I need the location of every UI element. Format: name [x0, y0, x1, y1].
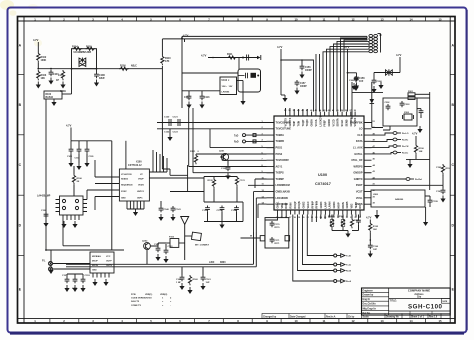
ground mic rail — [48, 267, 53, 274]
capacitor C163 — [163, 246, 173, 263]
svg-text:C120: C120 — [164, 117, 170, 119]
resistor C131 — [235, 176, 245, 186]
ground R190 — [407, 159, 412, 168]
shield module rounded box — [238, 69, 261, 92]
node 4.7V mid — [181, 34, 189, 39]
wires X100 left pins — [95, 160, 119, 210]
svg-text:13: 13 — [380, 17, 384, 21]
capacitor C153 — [80, 275, 90, 292]
svg-text:Q101: Q101 — [219, 151, 225, 153]
svg-text:C134: C134 — [231, 209, 237, 212]
svg-text:SDATA: SDATA — [121, 178, 128, 181]
svg-text:C121: C121 — [173, 117, 179, 119]
resistor R102 — [37, 52, 47, 62]
svg-text:SCLK: SCLK — [341, 120, 344, 127]
svg-text:COMPANY NAME: COMPANY NAME — [408, 288, 430, 292]
wire vertical V2 — [181, 36, 183, 108]
resistor R100 series in rail — [119, 65, 137, 71]
U100 bottom pin labels — [277, 201, 363, 209]
inductor L303 small box right — [285, 236, 290, 241]
svg-text:POS1: POS1 — [276, 147, 283, 150]
node 4.7V supply top-left — [33, 38, 39, 52]
U100 left pin numbers — [262, 121, 265, 205]
capacitor C105 — [84, 147, 94, 167]
svg-text:C300: C300 — [377, 81, 383, 83]
svg-text:Engineer: Engineer — [363, 289, 373, 292]
svg-text:LP2985: LP2985 — [222, 92, 230, 94]
svg-text:RFINP: RFINP — [311, 201, 314, 209]
capacitor C161 below bus — [200, 267, 211, 290]
svg-text:VCCD: VCCD — [332, 119, 335, 126]
node 4.7V right — [412, 132, 418, 145]
U100 left pin labels — [276, 121, 292, 206]
svg-text:10: 10 — [294, 17, 298, 21]
svg-text:LA4425AMP: LA4425AMP — [37, 195, 51, 198]
wire amp to mic bus — [46, 99, 124, 267]
resistor R181 below chip — [339, 215, 345, 229]
ground U100 bottom-right — [374, 210, 379, 219]
wire fan to chip top — [323, 36, 369, 111]
grounds top-right area — [351, 82, 383, 90]
wire top-right feed — [352, 82, 383, 119]
U106 bottom pins — [93, 273, 109, 278]
svg-text:C170: C170 — [275, 224, 281, 226]
battery connector J100 — [369, 34, 381, 53]
svg-text:4.7V: 4.7V — [201, 54, 207, 58]
svg-text:1000P: 1000P — [300, 86, 307, 88]
svg-text:C157: C157 — [300, 83, 306, 85]
svg-text:Eng ltr: Eng ltr — [363, 298, 371, 301]
svg-text:MMBZ.2KB: MMBZ.2KB — [79, 52, 91, 54]
svg-text:TXVCOTUNE: TXVCOTUNE — [276, 128, 292, 131]
svg-text:GND: GND — [92, 270, 97, 272]
svg-text:CLK: CLK — [357, 134, 362, 137]
capacitor C158 — [348, 73, 366, 90]
svg-text:R160: R160 — [193, 279, 199, 281]
svg-text:4.7V: 4.7V — [183, 34, 189, 38]
capacitor C156 — [299, 59, 312, 78]
capacitor C108 to ground — [94, 69, 105, 87]
svg-text:1P: 1P — [56, 79, 59, 82]
border zone ticks top — [50, 17, 426, 22]
crystal module box U301 — [383, 98, 417, 126]
capacitor C121 series — [164, 119, 180, 134]
svg-text:VER(2): VER(2) — [160, 294, 167, 296]
svg-text:X100: X100 — [136, 161, 142, 164]
svg-text:AGY1: AGY1 — [276, 165, 283, 168]
mic connector P100 — [42, 261, 90, 272]
svg-text:11: 11 — [323, 17, 326, 21]
capacitor C300 — [371, 73, 382, 94]
wires below-chip drops to arrows — [265, 215, 334, 282]
svg-text:XTAL_OF: XTAL_OF — [351, 159, 363, 162]
capacitor C120 series — [164, 117, 179, 127]
wire main rail left — [38, 62, 162, 68]
svg-text:GND2: GND2 — [303, 201, 306, 209]
svg-text:14: 14 — [409, 319, 413, 323]
svg-text:R190: R190 — [419, 148, 425, 150]
U100 right pin stubs — [364, 123, 372, 205]
svg-text:C303: C303 — [405, 104, 411, 106]
capacitor C134 — [231, 206, 239, 222]
svg-text:RFINN: RFINN — [316, 201, 319, 209]
svg-text:Rx.B: Rx.B — [346, 271, 351, 273]
border zone ticks bottom — [50, 319, 426, 323]
svg-text:RXQP: RXQP — [294, 201, 297, 208]
resistor R105 on box top — [86, 46, 96, 51]
capacitor C141 — [170, 206, 181, 221]
ground X100 — [133, 209, 138, 216]
wires into U100 left top pins — [157, 123, 267, 129]
capacitor C152 — [72, 277, 78, 292]
svg-text:LNAN: LNAN — [329, 201, 332, 208]
svg-text:LRX1800B: LRX1800B — [276, 197, 289, 200]
svg-text:C131: C131 — [240, 180, 246, 182]
U100 bottom pin numbers — [276, 216, 362, 219]
svg-text:X300: X300 — [404, 112, 410, 114]
svg-text:R300: R300 — [220, 262, 226, 264]
svg-text:TXVCOPWR: TXVCOPWR — [276, 121, 291, 124]
svg-text:R180: R180 — [328, 216, 334, 218]
U105 bottom pins — [63, 215, 79, 220]
svg-text:DATA: DATA — [356, 140, 363, 143]
svg-text:C163: C163 — [168, 246, 174, 248]
svg-text:Ck by: Ck by — [348, 316, 355, 318]
svg-text:C104: C104 — [75, 157, 81, 160]
svg-text:4.7V: 4.7V — [366, 216, 372, 220]
border zone numbers — [34, 17, 442, 323]
svg-text:10: 10 — [294, 319, 298, 323]
below-chip coupling box L301 — [265, 218, 289, 248]
svg-text:C302: C302 — [385, 102, 391, 104]
svg-text:SENB: SENB — [345, 119, 348, 126]
svg-text:C156: C156 — [305, 67, 311, 69]
svg-text:10K: 10K — [41, 77, 46, 80]
svg-text:R171: R171 — [275, 243, 281, 245]
resistor R110 on V1 — [161, 55, 171, 65]
wire right riser — [429, 92, 431, 125]
svg-text:15: 15 — [438, 319, 442, 323]
svg-text:MICIP: MICIP — [92, 261, 98, 263]
svg-text:Scale:: Scale: — [363, 316, 370, 318]
connector arrow audio 1 — [334, 254, 351, 258]
wire long vertical V3 — [111, 141, 113, 250]
svg-text:FREF: FREF — [324, 120, 327, 127]
capacitor C196 — [368, 232, 379, 257]
svg-text:4.7V: 4.7V — [277, 45, 283, 49]
svg-text:1000P: 1000P — [305, 70, 312, 72]
svg-text:33UF: 33UF — [99, 77, 105, 80]
svg-text:GNDTX: GNDTX — [354, 178, 363, 181]
svg-text:TXQN: TXQN — [306, 119, 309, 126]
wire R190 to bus — [406, 154, 430, 190]
capacitor C140 — [158, 201, 169, 221]
svg-text:SDATA: SDATA — [337, 118, 340, 126]
U100 left pin stubs — [267, 123, 275, 205]
svg-text:1UF: 1UF — [359, 81, 364, 83]
svg-text:D100: D100 — [46, 94, 52, 96]
svg-text:100K: 100K — [41, 59, 47, 62]
resistor R130 — [208, 178, 216, 188]
svg-text:14: 14 — [409, 17, 413, 21]
svg-text:C105: C105 — [89, 156, 95, 158]
diode D300 vertical — [370, 82, 375, 128]
wire X100 feed — [162, 165, 204, 192]
resistor R195 — [369, 222, 379, 232]
svg-text:R191: R191 — [446, 168, 452, 170]
wire cap gnd stub — [169, 129, 171, 134]
capacitor C150 — [41, 210, 49, 227]
capacitor C195 at box right — [425, 196, 439, 204]
grounds U105 — [61, 221, 77, 228]
resistor R191 right edge — [436, 164, 452, 176]
svg-text:VER(1): VER(1) — [145, 294, 152, 296]
svg-text:C160: C160 — [176, 279, 182, 281]
svg-text:12: 12 — [351, 17, 355, 21]
svg-text:PCB: PCB — [131, 294, 136, 296]
connector arrow Rx_CK — [393, 145, 409, 149]
resistor R111 — [227, 53, 237, 59]
connector arrow Rx_Rx — [393, 138, 409, 142]
svg-text:TITLE:: TITLE: — [390, 299, 398, 302]
U100 bottom pin stubs — [278, 210, 361, 215]
connector arrow Rx_Dx — [393, 151, 409, 155]
capacitor C180 below chip — [352, 215, 361, 231]
capacitor C104 — [75, 147, 82, 170]
svg-text:TXIP: TXIP — [293, 121, 296, 127]
junction dot connector — [380, 34, 382, 36]
svg-text:4.7V: 4.7V — [396, 53, 402, 57]
svg-text:4.7V: 4.7V — [412, 132, 418, 136]
antenna ANT100 — [181, 217, 189, 261]
connector TxD — [234, 134, 267, 138]
ground box right — [423, 219, 428, 226]
capacitor C162 — [154, 244, 161, 261]
svg-text:GNDRFBK: GNDRFBK — [350, 121, 363, 124]
resistor R121 — [190, 151, 200, 164]
svg-text:C122: C122 — [164, 132, 170, 134]
svg-text:R100: R100 — [120, 65, 126, 68]
resistor R107 third branch — [58, 70, 66, 89]
wire X100 top feed — [125, 141, 127, 169]
svg-text:LO: LO — [359, 128, 363, 131]
capacitor C133 — [217, 206, 225, 222]
svg-text:Doc.Ctrl.No: Doc.Ctrl.No — [363, 303, 377, 306]
grounds U106 — [92, 279, 108, 286]
connector arrow audio 4 — [334, 279, 352, 283]
svg-text:CMDLNAXB: CMDLNAXB — [276, 190, 290, 193]
resistor R160 below bus — [187, 275, 198, 294]
title block outline — [362, 288, 451, 315]
transistor Q101 — [219, 151, 229, 161]
node 4.7V below box — [366, 216, 372, 223]
ground U301 — [417, 126, 422, 133]
ground RF net — [219, 222, 224, 229]
wire long vertical V1 — [161, 39, 163, 169]
svg-text:TXERA: TXERA — [276, 134, 285, 137]
revision strip texts — [263, 315, 438, 318]
shield box RF bottom-right — [371, 190, 425, 207]
svg-text:U100: U100 — [318, 173, 327, 177]
wires U100 right pins to Rx arrows — [372, 133, 394, 154]
capacitor C304 — [417, 109, 423, 118]
svg-text:L1_AUX: L1_AUX — [353, 147, 363, 150]
svg-text:GND3: GND3 — [320, 201, 323, 209]
svg-text:C141: C141 — [176, 208, 182, 211]
svg-text:Rx.Dx: Rx.Dx — [402, 153, 409, 155]
svg-text:Rx.LO: Rx.LO — [402, 133, 409, 135]
node 4.7V D300 — [396, 53, 402, 73]
U100 extra top stubs — [286, 108, 308, 112]
U100 top pin numbers — [284, 109, 357, 112]
svg-text:R111: R111 — [227, 53, 233, 56]
svg-text:Tx.B: Tx.B — [346, 256, 351, 258]
label X100 — [128, 161, 142, 168]
svg-text:1UF: 1UF — [373, 249, 378, 251]
resistor R104 on box top — [72, 46, 82, 51]
svg-text:Mfg Engr ltr: Mfg Engr ltr — [363, 308, 376, 311]
svg-text:SGH TX: SGH TX — [131, 301, 140, 303]
svg-text:12V+: 12V+ — [222, 86, 228, 88]
svg-text:Drawing No: Drawing No — [386, 316, 399, 318]
svg-text:C191: C191 — [436, 191, 442, 193]
svg-text:2K: 2K — [77, 181, 80, 183]
svg-text:U102: U102 — [222, 80, 228, 82]
svg-text:13: 13 — [380, 319, 384, 323]
svg-text:VAPC2: VAPC2 — [137, 190, 145, 193]
svg-text:C301: C301 — [349, 80, 355, 82]
svg-text:TXEPS: TXEPS — [276, 172, 285, 175]
svg-text:10K: 10K — [373, 229, 377, 231]
svg-text:GNDS: GNDS — [355, 203, 363, 206]
svg-text:WFDPS: WFDPS — [353, 165, 362, 168]
ground below left-top — [281, 95, 288, 102]
svg-text:VDDO: VDDO — [138, 185, 144, 187]
svg-text:SGH-C100: SGH-C100 — [408, 304, 443, 311]
svg-text:C161: C161 — [206, 279, 212, 281]
svg-text:C190: C190 — [436, 167, 442, 169]
svg-text:GNDD: GNDD — [328, 119, 331, 127]
svg-text:TxD: TxD — [234, 135, 239, 137]
diode D301 bowtie — [374, 69, 400, 75]
revision strip — [262, 314, 450, 319]
svg-text:CODE VERSION NO: CODE VERSION NO — [131, 298, 152, 300]
svg-text:RxD: RxD — [234, 142, 239, 144]
capacitor C130 — [221, 161, 231, 180]
svg-text:GNDA: GNDA — [311, 119, 314, 127]
svg-text:C112: C112 — [184, 97, 190, 99]
svg-text:TXVCOBFF: TXVCOBFF — [276, 159, 290, 162]
svg-text:12: 12 — [351, 319, 355, 323]
svg-text:VAGC: VAGC — [307, 201, 310, 208]
capacitor C113 — [199, 91, 210, 109]
svg-text:CX74017: CX74017 — [315, 182, 331, 186]
svg-text:C103: C103 — [67, 156, 73, 158]
svg-text:LRX8MKCM: LRX8MKCM — [276, 184, 290, 187]
svg-text:SIZE: SIZE — [442, 301, 447, 303]
resistor R106 — [72, 166, 82, 196]
resistor R190 — [414, 144, 424, 154]
svg-text:EXTAL: EXTAL — [354, 153, 362, 156]
svg-text:C195: C195 — [433, 201, 439, 203]
regulator U102 — [220, 77, 237, 95]
capacitor C101 to ground — [48, 70, 59, 85]
node 4.7V chip right-top — [344, 45, 350, 112]
svg-text:OUTP: OUTP — [106, 261, 112, 263]
wire mic caps — [67, 274, 83, 277]
svg-text:VB2: VB2 — [350, 203, 353, 208]
connector arrow Rx_LO — [393, 132, 409, 136]
svg-text:R106: R106 — [77, 178, 83, 180]
svg-text:GNDOP: GNDOP — [353, 172, 363, 175]
svg-text:MIXP: MIXP — [337, 202, 340, 208]
svg-text:L300: L300 — [209, 262, 215, 264]
svg-text:11: 11 — [323, 319, 326, 323]
svg-text:4.7V: 4.7V — [344, 45, 350, 49]
svg-text:VCCA: VCCA — [315, 119, 318, 126]
switch INT box — [185, 232, 210, 246]
border zone letters — [19, 44, 455, 292]
wire drop to detector — [62, 69, 72, 94]
svg-text:R301: R301 — [408, 91, 414, 93]
svg-text:1 NF: 1 NF — [176, 282, 181, 284]
capacitor C301 — [349, 76, 359, 91]
wires regulator pins — [182, 58, 243, 99]
node 4.7V cap bank — [66, 124, 72, 141]
resistor box R301 — [408, 91, 430, 96]
capacitor C114 series — [242, 55, 249, 61]
svg-text:MIXN: MIXN — [342, 202, 345, 208]
capacitor C112 — [184, 91, 192, 109]
svg-text:C123: C123 — [173, 132, 179, 134]
svg-text:COME TX: COME TX — [131, 305, 142, 307]
svg-text:BAS16: BAS16 — [46, 96, 54, 99]
connector RxD — [234, 140, 267, 144]
ground left pair — [167, 134, 172, 141]
svg-text:15: 15 — [438, 17, 442, 21]
audio amp U105 box — [56, 196, 88, 215]
svg-text:VCST: VCST — [356, 190, 363, 193]
svg-text:VCSL: VCSL — [356, 197, 363, 200]
wire RF rails — [204, 177, 243, 222]
wire riser right join — [429, 125, 431, 159]
filter F100 — [164, 237, 185, 248]
U100 right pin labels — [350, 121, 363, 206]
capacitor C157 — [294, 80, 307, 95]
svg-text:Rx.Ref: Rx.Ref — [415, 179, 422, 181]
svg-text:C153: C153 — [85, 275, 91, 277]
svg-text:TXERB: TXERB — [276, 140, 285, 143]
svg-text:4.7V: 4.7V — [66, 124, 72, 128]
transistor Q102 — [142, 241, 150, 265]
svg-text:VAPC: VAPC — [137, 197, 143, 200]
U100 top pin labels — [285, 116, 358, 127]
svg-text:Drawn by: Drawn by — [363, 294, 374, 297]
svg-text:FSOT: FSOT — [356, 184, 363, 187]
capacitor C191 right edge — [436, 185, 446, 202]
svg-text:Tx.A: Tx.A — [346, 264, 351, 267]
wire right long — [372, 176, 444, 185]
resistor box R302 — [408, 97, 430, 100]
svg-text:LOCKDT: LOCKDT — [319, 116, 322, 127]
junction dots rail — [37, 68, 97, 70]
border zone ticks left and right — [18, 74, 456, 255]
svg-text:12V: 12V — [229, 86, 233, 88]
svg-text:R107: R107 — [58, 75, 64, 77]
wires into U100 left mid pins — [189, 108, 267, 232]
svg-text:TXQP: TXQP — [302, 119, 305, 126]
wire Q102 row — [150, 243, 166, 248]
